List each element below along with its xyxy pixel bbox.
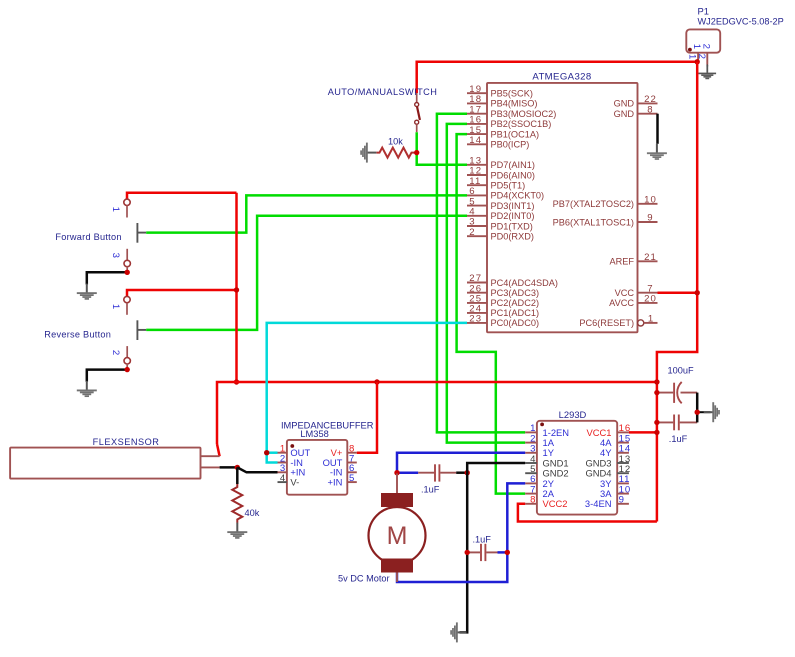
wire blue: L293D 2Y pin6 to motor bottom: [397, 483, 525, 582]
wire green: reverse button to PD2 pin 4: [146, 216, 467, 330]
wire cyan: PC0 pin23 to LM358 OUT/-IN: [267, 323, 467, 463]
svg-text:V-: V-: [290, 477, 299, 488]
junction at P1 pin 1: [695, 59, 700, 64]
wire red vertical button bus: [235, 193, 238, 382]
LM358 pin 3 +IN: [278, 471, 287, 473]
svg-text:PD2(INT0): PD2(INT0): [491, 211, 535, 221]
junction cyan pin1: [264, 450, 269, 455]
wire cyan stub to pin 1: [267, 451, 278, 454]
junction caps ground: [695, 410, 700, 415]
svg-text:2: 2: [696, 54, 707, 59]
ground below P1 pin 2: [699, 65, 717, 79]
wire black: reverse pin2 to ground: [87, 370, 127, 382]
L293D pin 4 GND1: [525, 462, 537, 464]
svg-text:1: 1: [686, 54, 697, 59]
wire PB3 pin17 to L293D 1-2EN pin 1: [437, 114, 525, 433]
svg-text:VCC: VCC: [615, 288, 635, 298]
resistor R 10k: [377, 148, 415, 158]
svg-text:L293D: L293D: [559, 409, 587, 420]
L293D pin 7 2A: [525, 493, 537, 495]
svg-text:Forward Button: Forward Button: [55, 232, 121, 242]
wire red: V+ pin 8 to bus: [357, 382, 377, 453]
wire black: flex to +IN junction: [220, 466, 238, 469]
L293D pin 9 3-4EN: [617, 503, 629, 505]
motor M1 5v DC Motor: [369, 473, 426, 582]
L293D pin 12 GND4: [617, 472, 629, 474]
L293D pin 15 4A: [617, 442, 629, 444]
wire green: forward button to PD4 pin 6: [146, 195, 467, 232]
pin 4 PD2(INT0): [467, 215, 487, 217]
L293D pin 6 2Y: [525, 482, 537, 484]
svg-text:.1uF: .1uF: [421, 485, 440, 495]
svg-text:9: 9: [647, 213, 653, 224]
wire red diagonal to flex sensor: [217, 444, 220, 456]
svg-text:PD0(RXD): PD0(RXD): [491, 232, 534, 242]
svg-text:4: 4: [280, 473, 286, 484]
L293D pin 1 1-2EN: [525, 431, 537, 433]
pin 6 PD4(XCKT0): [467, 194, 487, 196]
svg-text:+IN: +IN: [328, 477, 343, 488]
sensor FLEXSENSOR: [10, 448, 200, 479]
L293D pin 10 3A: [617, 493, 629, 495]
svg-text:20: 20: [644, 294, 657, 305]
svg-text:8: 8: [647, 104, 653, 115]
LM358 pin 2 -IN: [278, 462, 287, 464]
junction V+ drop: [374, 379, 379, 384]
ground below 40k: [227, 523, 247, 539]
svg-text:3: 3: [110, 253, 121, 258]
pin 25 PC2(ADC2): [467, 302, 487, 304]
svg-text:PB0(ICP): PB0(ICP): [491, 140, 530, 150]
junction reverse top: [234, 287, 239, 292]
svg-text:PD6(AIN0): PD6(AIN0): [491, 170, 535, 180]
capacitor .1uF (right): [657, 415, 697, 431]
junction VCC1: [654, 430, 659, 435]
LM358 pin 1 OUT: [278, 452, 287, 454]
svg-text:1: 1: [648, 314, 653, 325]
wire black: ATMEGA pin 8 GND down: [656, 114, 659, 144]
L293D pin 13 GND3: [617, 462, 629, 464]
stub below 40k: [236, 523, 238, 524]
microcontroller U1 ATMEGA328: [467, 72, 658, 333]
svg-text:PB3(MOSIOC2): PB3(MOSIOC2): [491, 109, 557, 119]
pin 24 PC1(ADC1): [467, 312, 487, 314]
svg-text:14: 14: [469, 135, 482, 146]
wire VCC right vertical: P1 down to VCC pin 7 and corner: [657, 62, 697, 522]
wire black: forward pin3 to ground: [87, 272, 127, 284]
junction switch/10k: [414, 150, 419, 155]
LM358 pin 5 +IN: [347, 481, 357, 483]
op-amp U2 LM358: [278, 440, 357, 495]
junction .1uF left: [654, 420, 659, 425]
svg-text:PB7(XTAL2TOSC2): PB7(XTAL2TOSC2): [553, 199, 634, 209]
svg-text:2: 2: [469, 227, 475, 238]
svg-text:PC1(ADC1): PC1(ADC1): [491, 308, 540, 318]
wire black caps to ground: [696, 393, 699, 423]
wire red: VCC1 pin 16 to vertical: [629, 431, 657, 434]
switch Reverse Button: [110, 290, 237, 370]
pin 7 VCC: [638, 292, 658, 294]
svg-text:GND: GND: [614, 99, 635, 109]
svg-text:10: 10: [644, 195, 657, 206]
svg-text:GND: GND: [614, 109, 635, 119]
wire black: GND1 pin4 to bottom ground: [460, 463, 526, 632]
wire black diagonal to +IN pin 3: [237, 467, 277, 472]
svg-text:10k: 10k: [388, 137, 403, 147]
pin 12 PD6(AIN0): [467, 174, 487, 176]
junction at VCC pin 7: [695, 290, 700, 295]
wire VCC pin7 stub connection: [658, 291, 698, 294]
svg-text:AVCC: AVCC: [609, 298, 634, 308]
svg-text:PB5(SCK): PB5(SCK): [491, 89, 533, 99]
svg-text:PB6(XTAL1TOSC1): PB6(XTAL1TOSC1): [553, 217, 634, 227]
pin 23 PC0(ADC0): [467, 322, 487, 324]
junction cap1 right on gnd line: [465, 470, 470, 475]
flex pin stub bottom: [201, 466, 220, 468]
wire net from switch to PD7(AIN1) pin 13: [417, 132, 467, 165]
switch Forward Button: [110, 193, 237, 273]
wire blue: L293D 1Y pin3 to motor top: [397, 453, 525, 473]
L293D pin 5 GND2: [525, 472, 537, 474]
pin 16 PB2(SSOC1B): [467, 123, 487, 125]
junction cap2 left: [465, 550, 470, 555]
L293D pin 11 3Y: [617, 482, 629, 484]
svg-text:40k: 40k: [245, 508, 260, 518]
svg-text:FLEXSENSOR: FLEXSENSOR: [93, 437, 160, 447]
wire red: forward pin1 up/right: [127, 193, 237, 200]
svg-text:LM358: LM358: [300, 429, 328, 439]
switch S1 AUTO/MANUAL: [415, 93, 420, 132]
junction bus: [234, 379, 239, 384]
ground at 10k resistor (pointing left): [360, 143, 376, 163]
svg-text:1: 1: [691, 44, 702, 49]
wire PB1 pin15 to L293D 2A pin 7: [457, 134, 526, 494]
capacitor .1uF (motor top): [397, 464, 467, 481]
junction flex/40k: [235, 465, 240, 470]
junction reverse pin 2: [125, 367, 130, 372]
L293D pin 8 VCC2: [525, 503, 537, 505]
P1 pin 2: [706, 53, 708, 65]
svg-text:AREF: AREF: [609, 257, 634, 267]
wire black down to 40k: [236, 467, 239, 484]
svg-text:2: 2: [110, 350, 121, 355]
L293D pin 16 VCC1: [617, 431, 629, 433]
svg-text:PC2(ADC2): PC2(ADC2): [491, 298, 540, 308]
wire PB2 pin16 to L293D 1A pin 2: [447, 124, 525, 443]
LM358 pin 7 OUT: [347, 462, 357, 464]
L293D pin 3 1Y: [525, 452, 537, 454]
svg-text:VCC2: VCC2: [543, 498, 568, 509]
svg-text:PD3(INT1): PD3(INT1): [491, 201, 535, 211]
pin 26 PC3(ADC3): [467, 292, 487, 294]
svg-text:ATMEGA328: ATMEGA328: [532, 72, 591, 83]
junction cap2 right: [505, 550, 510, 555]
pin 11 PD5(T1): [467, 184, 487, 186]
P1 pin 1: [697, 53, 699, 62]
wire red horizontal supply bus: [217, 382, 657, 444]
LM358 pin 4 V-: [278, 481, 287, 483]
svg-text:21: 21: [644, 252, 657, 263]
svg-text:WJ2EDGVC-5.08-2P: WJ2EDGVC-5.08-2P: [698, 17, 784, 27]
svg-text:2: 2: [701, 44, 712, 49]
svg-text:3-4EN: 3-4EN: [585, 498, 612, 509]
svg-text:PB4(MISO): PB4(MISO): [491, 99, 538, 109]
ground bottom (pointing left): [450, 622, 466, 642]
LM358 pin 6 -IN: [347, 471, 357, 473]
svg-text:8: 8: [530, 495, 535, 506]
L293D pin 2 1A: [525, 442, 537, 444]
svg-text:AUTO/MANUALSWITCH: AUTO/MANUALSWITCH: [328, 87, 438, 97]
pin 1 PC6(RESET): [638, 320, 644, 326]
driver IC U3 L293D: [525, 421, 631, 515]
svg-text:1: 1: [110, 304, 121, 309]
junction forward pin 3: [125, 270, 130, 275]
capacitor 100uF (polarized): [657, 382, 697, 403]
wire red: VCC2 pin 8 loop: [518, 504, 657, 522]
pin 5 PD3(INT1): [467, 205, 487, 207]
pin 2 PD0(RXD): [467, 235, 487, 237]
pin 17 PB3(MOSIOC2): [467, 113, 487, 115]
svg-text:PB1(OC1A): PB1(OC1A): [491, 129, 540, 139]
svg-text:PC6(RESET): PC6(RESET): [579, 318, 634, 328]
pin 19 PB5(SCK): [467, 92, 487, 94]
svg-text:5v DC Motor: 5v DC Motor: [338, 574, 390, 584]
svg-text:P1: P1: [698, 6, 709, 17]
wire VCC top: switch to P1 pin 1: [417, 62, 698, 93]
svg-text:PC4(ADC4SDA): PC4(ADC4SDA): [491, 278, 558, 288]
svg-text:9: 9: [619, 495, 625, 506]
pin 9 PB6(XTAL1TOSC1): [638, 221, 658, 223]
svg-text:.1uF: .1uF: [473, 534, 492, 544]
svg-text:PC3(ADC3): PC3(ADC3): [491, 288, 540, 298]
svg-text:PB2(SSOC1B): PB2(SSOC1B): [491, 119, 552, 129]
svg-text:.1uF: .1uF: [669, 434, 688, 444]
LM358 pin 8 V+: [347, 452, 357, 454]
flex pin stub top: [201, 455, 220, 457]
svg-text:PD7(AIN1): PD7(AIN1): [491, 160, 535, 170]
pin 22 GND: [638, 102, 658, 104]
ground below ATMEGA pin 8: [647, 144, 667, 160]
pin 21 AREF: [638, 260, 658, 262]
junction 100uF left: [654, 390, 659, 395]
svg-text:PD1(TXD): PD1(TXD): [491, 221, 533, 231]
pin 15 PB1(OC1A): [467, 133, 487, 135]
svg-text:100uF: 100uF: [668, 366, 694, 376]
pin 14 PB0(ICP): [467, 143, 487, 145]
pin 10 PB7(XTAL2TOSC2): [638, 203, 658, 205]
svg-text:Reverse Button: Reverse Button: [44, 329, 111, 339]
wire red: reverse pin1 up/right: [127, 290, 237, 297]
connector P1 WJ2EDGVC-5.08-2P: [686, 6, 783, 67]
svg-text:PD4(XCKT0): PD4(XCKT0): [491, 191, 545, 201]
junction bus right end: [654, 379, 659, 384]
junction motor top: [394, 470, 399, 475]
resistor R 40k: [232, 484, 242, 523]
svg-text:1: 1: [110, 207, 121, 212]
pin 3 PD1(TXD): [467, 225, 487, 227]
svg-text:23: 23: [469, 314, 482, 325]
svg-text:PC0(ADC0): PC0(ADC0): [491, 318, 540, 328]
pin 27 PC4(ADC4SDA): [467, 282, 487, 284]
capacitor .1uF (bottom middle): [467, 544, 507, 561]
svg-text:M: M: [387, 522, 408, 550]
svg-text:5: 5: [349, 473, 354, 484]
ground right of caps (pointing right): [704, 402, 720, 422]
pin 13 PD7(AIN1): [467, 164, 487, 166]
pin 18 PB4(MISO): [467, 102, 487, 104]
svg-text:PD5(T1): PD5(T1): [491, 181, 526, 191]
ground below Forward Button: [77, 284, 97, 300]
pin 20 AVCC: [638, 302, 658, 304]
pin 8 GND: [638, 113, 658, 115]
L293D pin 14 4Y: [617, 452, 629, 454]
ground below Reverse Button: [77, 381, 97, 397]
